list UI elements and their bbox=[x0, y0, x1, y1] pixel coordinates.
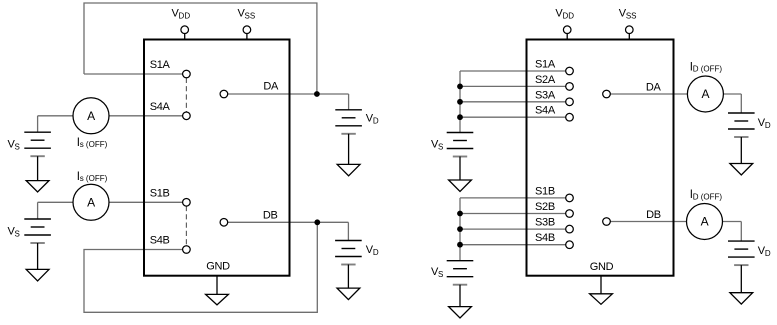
svg-text:S1A: S1A bbox=[535, 59, 556, 71]
svg-text:S1B: S1B bbox=[150, 187, 170, 199]
svg-text:S3A: S3A bbox=[535, 89, 556, 101]
svg-text:VD: VD bbox=[366, 112, 379, 125]
svg-text:VD: VD bbox=[366, 244, 379, 257]
svg-text:DA: DA bbox=[646, 81, 662, 93]
svg-text:VSS: VSS bbox=[619, 8, 637, 21]
svg-text:S2B: S2B bbox=[535, 201, 555, 213]
svg-text:A: A bbox=[87, 195, 95, 209]
svg-text:S4B: S4B bbox=[535, 232, 555, 244]
svg-text:DB: DB bbox=[646, 209, 661, 221]
svg-text:VS: VS bbox=[431, 266, 443, 279]
svg-text:VS: VS bbox=[8, 225, 20, 238]
svg-text:S4A: S4A bbox=[150, 101, 171, 113]
svg-text:DB: DB bbox=[263, 210, 278, 222]
svg-text:VSS: VSS bbox=[238, 8, 256, 21]
svg-text:VD: VD bbox=[758, 117, 771, 130]
svg-text:S2A: S2A bbox=[535, 74, 556, 86]
svg-text:Is (OFF): Is (OFF) bbox=[77, 137, 108, 149]
svg-text:GND: GND bbox=[206, 261, 230, 273]
svg-text:A: A bbox=[87, 109, 95, 123]
svg-text:VD: VD bbox=[758, 245, 771, 258]
svg-text:ID (OFF): ID (OFF) bbox=[690, 189, 723, 201]
svg-text:ID (OFF): ID (OFF) bbox=[690, 61, 723, 73]
svg-text:S1B: S1B bbox=[535, 185, 555, 197]
svg-text:VS: VS bbox=[8, 139, 20, 152]
svg-text:Is (OFF): Is (OFF) bbox=[77, 171, 108, 183]
svg-text:VS: VS bbox=[431, 138, 443, 151]
svg-text:S3B: S3B bbox=[535, 217, 555, 229]
svg-text:A: A bbox=[702, 87, 710, 101]
svg-text:VDD: VDD bbox=[555, 8, 574, 21]
svg-text:DA: DA bbox=[263, 81, 279, 93]
svg-text:S4B: S4B bbox=[150, 235, 170, 247]
svg-text:VDD: VDD bbox=[172, 8, 191, 21]
svg-text:S1A: S1A bbox=[150, 59, 171, 71]
svg-text:GND: GND bbox=[590, 261, 614, 273]
svg-text:S4A: S4A bbox=[535, 105, 556, 117]
svg-text:A: A bbox=[701, 215, 709, 229]
